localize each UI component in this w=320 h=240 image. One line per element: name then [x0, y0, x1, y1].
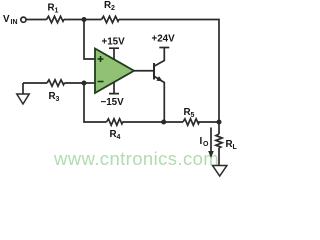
label R3 — [49, 91, 60, 103]
resistor RL (vertical) — [216, 134, 222, 148]
svg-text:4: 4 — [117, 134, 121, 141]
wire: node C down to feedback rail — [84, 83, 107, 122]
svg-text:1: 1 — [55, 8, 59, 15]
input terminal VIN — [21, 17, 26, 22]
wire: VIN terminal to R1 — [26, 19, 46, 21]
label VIN — [3, 14, 18, 26]
svg-text:2: 2 — [111, 5, 115, 12]
label R4 — [110, 129, 121, 141]
wire: node C to op-amp - input — [84, 82, 96, 84]
wire: R2 to top-right corner and down to node B — [119, 20, 219, 121]
node A junction dot — [82, 17, 87, 22]
label R2 — [104, 0, 115, 12]
current arrow IO — [208, 128, 214, 159]
svg-text:−15V: −15V — [101, 97, 125, 108]
op-amp +15V supply — [102, 37, 126, 60]
svg-text:+15V: +15V — [102, 37, 126, 48]
resistor R3 — [47, 80, 65, 86]
wire: RL to ground — [218, 148, 220, 165]
label R5 — [184, 107, 195, 119]
svg-text:L: L — [233, 144, 238, 151]
wire: R5 to node B — [198, 121, 219, 123]
wire: R3 to node C — [65, 82, 85, 84]
wire: op-amp output to Q1 base — [134, 70, 153, 72]
svg-text:3: 3 — [56, 96, 60, 103]
wire: R1 to node A — [64, 19, 84, 21]
label R1 — [48, 3, 59, 15]
+24V supply — [152, 34, 176, 48]
wire: node B down to RL — [218, 122, 220, 134]
node D junction dot (emitter join) — [161, 120, 166, 125]
resistor R5 — [183, 119, 199, 125]
op-amp -15V supply — [101, 83, 125, 109]
op-amp U1 — [95, 49, 134, 94]
label RL — [226, 139, 238, 151]
resistor R1 — [47, 16, 65, 22]
svg-text:www.cntronics.com: www.cntronics.com — [53, 148, 219, 169]
svg-text:V: V — [3, 14, 10, 25]
svg-text:5: 5 — [191, 112, 195, 119]
wire: node A down to op-amp + input — [84, 20, 96, 60]
wire: ground to R3 — [23, 82, 47, 84]
transistor Q1 — [154, 48, 164, 123]
resistor R4 — [107, 119, 123, 125]
svg-text:O: O — [203, 141, 209, 148]
svg-text:IN: IN — [11, 19, 18, 26]
node C junction dot — [82, 81, 87, 86]
wire: node D to R5 — [164, 121, 183, 123]
label IO — [200, 136, 210, 148]
wire: node A to R2 — [84, 19, 102, 21]
ground (right) — [213, 166, 227, 177]
svg-text:+24V: +24V — [152, 34, 176, 45]
resistor R2 — [102, 16, 120, 22]
ground (left) — [17, 83, 29, 104]
wire: R4 to node D — [123, 121, 164, 123]
watermark www.cntronics.com — [53, 148, 219, 169]
node B junction dot — [217, 120, 222, 125]
